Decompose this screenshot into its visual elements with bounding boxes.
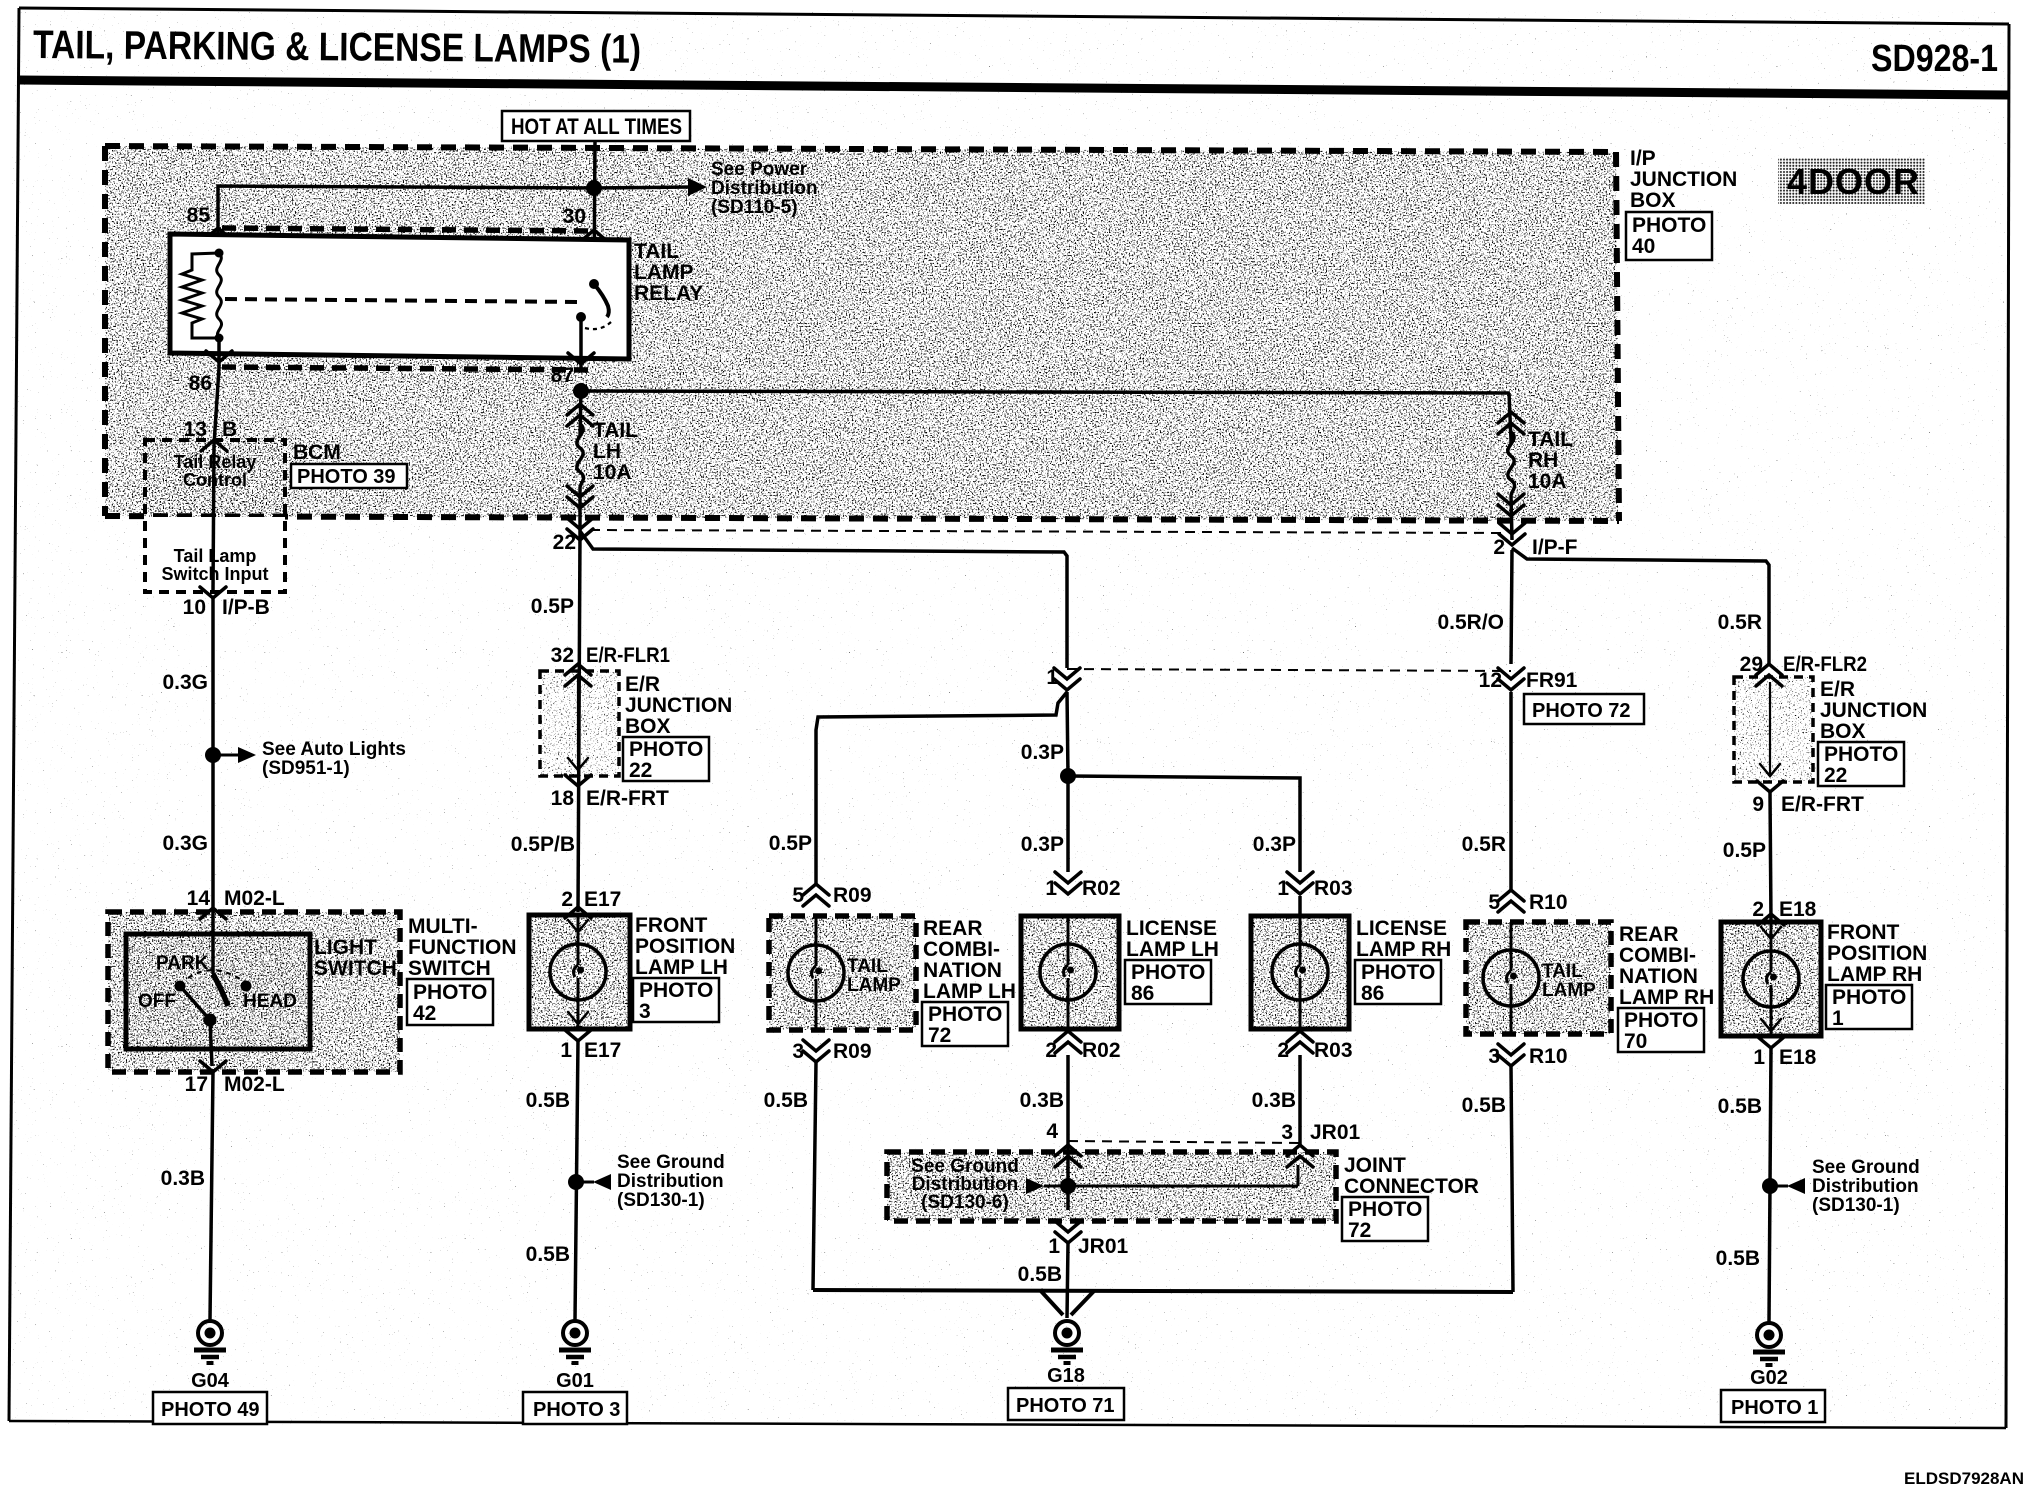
svg-text:R03: R03 — [1314, 1039, 1353, 1062]
lamp bulb license LH — [1040, 944, 1096, 1000]
svg-text:3: 3 — [1488, 1045, 1500, 1068]
svg-text:RH: RH — [1528, 449, 1558, 472]
pin 2 R02 label — [1045, 1039, 1057, 1062]
svg-text:2: 2 — [1752, 898, 1764, 921]
svg-text:R10: R10 — [1529, 1045, 1568, 1068]
svg-text:PHOTO: PHOTO — [413, 981, 487, 1004]
svg-text:FUNCTION: FUNCTION — [408, 936, 517, 959]
svg-text:22: 22 — [1824, 764, 1847, 787]
pin 9 label — [1752, 793, 1764, 816]
pin 32 chevron — [565, 664, 591, 686]
svg-text:E18: E18 — [1779, 898, 1817, 921]
svg-text:30: 30 — [563, 205, 586, 228]
svg-text:10A: 10A — [1528, 470, 1567, 493]
svg-text:LAMP RH: LAMP RH — [1827, 963, 1922, 986]
fuse label TAIL RH 10A — [1528, 428, 1573, 493]
svg-text:NATION: NATION — [923, 959, 1002, 982]
pin 2 E18 label — [1752, 898, 1764, 921]
wire label 0.3G — [162, 671, 208, 694]
wire label 0.3B license LH — [1020, 1089, 1064, 1112]
net name I/P-B — [222, 596, 270, 619]
svg-text:0.5B: 0.5B — [526, 1243, 570, 1266]
wire label 0.3P license RH — [1253, 833, 1296, 856]
wire down to license lamp LH — [1066, 776, 1070, 872]
lamp bulb tail RH — [1483, 950, 1539, 1006]
label See Ground Distribution (SD130-1) LH — [617, 1152, 725, 1211]
pin 10 label — [183, 596, 206, 619]
svg-text:1: 1 — [1277, 877, 1289, 900]
4DOOR badge — [1778, 158, 1925, 204]
pin 5 R09 chevron — [803, 884, 829, 906]
net name E18 lower — [1779, 1046, 1817, 1069]
connector chevron pin 85 — [205, 228, 231, 239]
net name M02-L — [224, 887, 285, 910]
E/R junction box RH — [1734, 677, 1813, 782]
svg-text:PHOTO: PHOTO — [1832, 986, 1906, 1009]
pin 12 FR91 chevron — [1498, 668, 1524, 690]
connector 2 I/P-F chevron — [1499, 523, 1525, 545]
svg-text:72: 72 — [928, 1024, 951, 1047]
lamp bulb license RH — [1272, 944, 1328, 1000]
svg-text:JR01: JR01 — [1078, 1235, 1129, 1258]
svg-text:JUNCTION: JUNCTION — [625, 694, 732, 717]
wire label 0.5B — [526, 1089, 570, 1112]
wire label 0.5P/B — [511, 833, 575, 856]
svg-text:ELDSD7928AN: ELDSD7928AN — [1904, 1469, 2024, 1488]
PHOTO 72 box joint — [1342, 1197, 1428, 1242]
svg-text:13: 13 — [184, 418, 207, 441]
svg-text:E17: E17 — [584, 1039, 621, 1062]
PHOTO 39 box — [291, 464, 407, 488]
pin 2 E18 chevron — [1758, 914, 1784, 925]
svg-text:9: 9 — [1752, 793, 1764, 816]
E/R junction box LH — [540, 671, 619, 776]
net name R09 lower — [833, 1040, 872, 1063]
svg-text:0.5B: 0.5B — [1462, 1094, 1506, 1117]
branch wire I/P-F to front position RH — [1512, 548, 1769, 664]
header thick bar — [19, 80, 2009, 95]
svg-text:14: 14 — [187, 887, 211, 910]
lamp bulb tail LH — [788, 945, 844, 1001]
lamp bulb front position LH — [550, 944, 606, 1000]
svg-text:(SD951-1): (SD951-1) — [262, 758, 350, 779]
svg-text:0.5B: 0.5B — [764, 1089, 808, 1112]
svg-text:0.3B: 0.3B — [1020, 1089, 1064, 1112]
net name E17 — [584, 888, 621, 911]
multi-function switch dashed box — [108, 912, 400, 1072]
svg-text:TAIL: TAIL — [1542, 961, 1583, 982]
net name M02-L lower — [224, 1073, 285, 1096]
svg-text:PHOTO: PHOTO — [639, 979, 713, 1002]
svg-text:TAIL: TAIL — [1528, 428, 1573, 451]
joint connector node — [1060, 1178, 1076, 1194]
node at power feed — [586, 180, 602, 196]
pin 3 R10 label — [1488, 1045, 1500, 1068]
svg-text:72: 72 — [1348, 1219, 1371, 1242]
PHOTO 72 box FR91 — [1524, 694, 1644, 724]
svg-text:(SD130-6): (SD130-6) — [921, 1192, 1009, 1213]
svg-text:10: 10 — [183, 596, 206, 619]
label LIGHT SWITCH — [314, 936, 397, 980]
label REAR COMBINATION LAMP LH — [923, 917, 1016, 1003]
svg-text:POSITION: POSITION — [635, 935, 735, 958]
svg-text:2: 2 — [1277, 1039, 1289, 1062]
junction node license lamps — [1060, 768, 1076, 784]
svg-text:0.5R: 0.5R — [1462, 833, 1506, 856]
svg-text:86: 86 — [189, 372, 212, 395]
wire joint connector to ground G18 — [1067, 1243, 1068, 1318]
wire label 0.3P license LH — [1021, 833, 1064, 856]
svg-text:1: 1 — [1832, 1007, 1844, 1030]
relay switch contact from pin 30 — [576, 279, 611, 368]
label FRONT POSITION LAMP RH — [1827, 921, 1927, 986]
label BCM — [293, 441, 341, 464]
wire switch to ground G04 — [210, 1072, 213, 1320]
pin 9 chevron — [1757, 781, 1783, 792]
svg-text:22: 22 — [553, 531, 576, 554]
connector chevron pin 30 — [581, 230, 607, 241]
pin 3 JR01 chevron — [1287, 1145, 1313, 1167]
svg-text:0.3B: 0.3B — [161, 1167, 205, 1190]
PHOTO 22 box RH — [1818, 742, 1904, 787]
wire feed to pin 85 — [218, 186, 594, 253]
pin 17 label — [185, 1073, 208, 1096]
net name JR01 — [1310, 1121, 1361, 1144]
pin 18 chevron — [565, 775, 591, 786]
pin 4 label — [1046, 1120, 1058, 1143]
svg-text:PHOTO 72: PHOTO 72 — [1532, 700, 1631, 722]
pin 3 JR01 label — [1281, 1121, 1293, 1144]
svg-text:TAIL: TAIL — [847, 956, 888, 977]
svg-text:PHOTO 3: PHOTO 3 — [533, 1399, 620, 1421]
pin 1 E18 label — [1753, 1046, 1765, 1069]
wire connector 2 I/P-F down to FR91 — [1511, 550, 1512, 664]
net name E/R-FLR2 — [1783, 653, 1867, 676]
node see ground distribution LH — [568, 1174, 584, 1190]
svg-text:0.3G: 0.3G — [162, 832, 208, 855]
thin dashed line between connector 22 and connector 2 — [590, 530, 1505, 533]
BCM internal label Tail Lamp Switch Input — [162, 546, 269, 584]
label G04 — [191, 1370, 230, 1392]
svg-text:I/P: I/P — [1630, 147, 1656, 170]
svg-text:1: 1 — [1753, 1046, 1765, 1069]
svg-text:COMBI-: COMBI- — [923, 938, 1000, 961]
pin 3 R09 label — [792, 1040, 804, 1063]
label MULTI-FUNCTION SWITCH — [408, 915, 517, 980]
sheet number SD928-1 — [1871, 38, 1998, 80]
svg-text:LAMP RH: LAMP RH — [1356, 938, 1451, 961]
svg-text:I/P-B: I/P-B — [222, 596, 270, 619]
pin 87 label — [551, 364, 574, 387]
svg-text:JUNCTION: JUNCTION — [1630, 168, 1737, 191]
pin 1 JR01 label — [1048, 1235, 1060, 1258]
wire label 0.5P — [531, 595, 574, 618]
svg-text:85: 85 — [187, 204, 211, 227]
svg-text:R09: R09 — [833, 884, 872, 907]
svg-text:BOX: BOX — [1820, 720, 1866, 743]
net name FR91 — [1526, 669, 1578, 692]
svg-text:LH: LH — [593, 440, 621, 463]
svg-text:0.5P: 0.5P — [769, 832, 812, 855]
svg-text:2: 2 — [561, 888, 573, 911]
label See Ground Distribution (SD130-6) — [911, 1156, 1019, 1213]
label G02 — [1750, 1367, 1788, 1389]
wire E/R box to front position lamp RH — [1770, 792, 1771, 922]
svg-text:4: 4 — [1046, 1120, 1058, 1143]
svg-text:0.5R: 0.5R — [1718, 611, 1762, 634]
relay coil junction dots — [215, 249, 224, 343]
svg-text:BOX: BOX — [1630, 189, 1676, 212]
pin 1 R02 chevron — [1055, 872, 1081, 894]
pin 3 R10 chevron — [1498, 1044, 1524, 1066]
svg-text:G18: G18 — [1047, 1365, 1085, 1387]
dashed line across relay middle — [225, 299, 580, 302]
relay label TAIL LAMP RELAY — [634, 240, 703, 305]
svg-text:42: 42 — [413, 1002, 436, 1025]
joint connector dashed box — [887, 1152, 1336, 1221]
svg-text:(SD130-1): (SD130-1) — [617, 1190, 705, 1211]
svg-text:E/R: E/R — [625, 673, 660, 696]
svg-text:LAMP: LAMP — [847, 975, 901, 996]
svg-text:E17: E17 — [584, 888, 621, 911]
svg-text:0.3P: 0.3P — [1253, 833, 1296, 856]
svg-text:PHOTO: PHOTO — [629, 738, 703, 761]
svg-text:LICENSE: LICENSE — [1356, 917, 1447, 940]
PHOTO 1 box ground — [1721, 1390, 1825, 1422]
fuse label TAIL LH 10A — [593, 419, 638, 484]
svg-text:G04: G04 — [191, 1370, 230, 1392]
svg-text:I/P-F: I/P-F — [1532, 536, 1578, 559]
wire tail LH to ground bus — [813, 1062, 816, 1290]
PHOTO 72 box tail LH — [922, 1002, 1008, 1047]
svg-text:G02: G02 — [1750, 1367, 1788, 1389]
svg-text:LAMP LH: LAMP LH — [923, 980, 1016, 1003]
svg-text:CONNECTOR: CONNECTOR — [1344, 1175, 1479, 1198]
pin 22 label — [553, 531, 576, 554]
net name R03 — [1314, 877, 1353, 900]
svg-text:0.5P: 0.5P — [531, 595, 574, 618]
svg-text:LAMP LH: LAMP LH — [1126, 938, 1219, 961]
wire label 0.5B front RH — [1718, 1095, 1762, 1118]
BCM internal label Tail Relay Control — [174, 452, 257, 490]
PHOTO 42 box — [407, 979, 493, 1025]
svg-text:FR91: FR91 — [1526, 669, 1578, 692]
dashed line below relay between pins 86 and 87 — [222, 367, 595, 370]
svg-text:R03: R03 — [1314, 877, 1353, 900]
svg-text:E/R-FRT: E/R-FRT — [1781, 793, 1864, 816]
svg-text:R02: R02 — [1082, 1039, 1121, 1062]
svg-text:4DOOR: 4DOOR — [1787, 161, 1920, 202]
svg-text:E18: E18 — [1779, 1046, 1817, 1069]
svg-text:R02: R02 — [1082, 877, 1121, 900]
arrow to See Auto Lights — [213, 747, 256, 763]
svg-text:PHOTO 71: PHOTO 71 — [1016, 1395, 1115, 1417]
svg-text:22: 22 — [629, 759, 652, 782]
svg-text:0.3G: 0.3G — [162, 671, 208, 694]
label TAIL LAMP inside box — [847, 956, 901, 996]
wire label 0.3B license RH — [1252, 1089, 1296, 1112]
PHOTO 40 box — [1626, 212, 1712, 260]
svg-text:E/R-FLR1: E/R-FLR1 — [586, 644, 670, 667]
svg-text:PHOTO: PHOTO — [1361, 961, 1435, 984]
label HEAD — [243, 991, 297, 1012]
PHOTO 22 box LH — [623, 737, 709, 782]
ground G02 — [1753, 1323, 1785, 1365]
label LICENSE LAMP LH — [1126, 917, 1219, 961]
net name B — [222, 418, 237, 441]
label E/R JUNCTION BOX RH — [1820, 678, 1927, 743]
svg-text:REAR: REAR — [1619, 923, 1679, 946]
svg-text:18: 18 — [551, 787, 575, 810]
svg-text:32: 32 — [551, 644, 574, 667]
net name JR01 lower — [1078, 1235, 1129, 1258]
arrow See Ground Distribution RH — [1770, 1178, 1805, 1194]
label TAIL LAMP inside box RH — [1542, 961, 1596, 1001]
pin 1 E18 chevron — [1758, 1037, 1784, 1048]
svg-text:LAMP RH: LAMP RH — [1619, 986, 1714, 1009]
wire label 0.5B lower — [526, 1243, 570, 1266]
svg-text:E/R-FLR2: E/R-FLR2 — [1783, 653, 1867, 676]
label LICENSE LAMP RH — [1356, 917, 1451, 961]
svg-text:0.3P: 0.3P — [1021, 741, 1064, 764]
svg-text:0.3P: 0.3P — [1021, 833, 1064, 856]
PHOTO 86 box RH — [1355, 960, 1441, 1005]
switch mechanism — [175, 970, 252, 1026]
connector 1 chevron license feed — [1054, 668, 1080, 690]
pin 86 label — [189, 372, 212, 395]
svg-text:PHOTO 49: PHOTO 49 — [161, 1399, 260, 1421]
PHOTO 86 box LH — [1125, 960, 1211, 1005]
HOT AT ALL TIMES box — [502, 111, 690, 141]
license lamp RH box — [1251, 916, 1349, 1029]
svg-text:R09: R09 — [833, 1040, 872, 1063]
svg-text:0.5B: 0.5B — [1018, 1263, 1062, 1286]
svg-text:POSITION: POSITION — [1827, 942, 1927, 965]
I/P junction box dashed border — [105, 146, 1619, 521]
svg-text:R10: R10 — [1529, 891, 1568, 914]
pin 2 R03 chevron — [1287, 1031, 1313, 1053]
net name R02 lower — [1082, 1039, 1121, 1062]
node see auto lights — [205, 747, 221, 763]
pin 5 R10 label — [1488, 891, 1500, 914]
dashed line above relay between pins 85 and 30 — [222, 228, 592, 231]
wire label 0.5R tail RH — [1462, 833, 1506, 856]
svg-text:See Ground: See Ground — [617, 1152, 725, 1173]
PHOTO 70 box — [1618, 1008, 1704, 1053]
pin 29 E/R-FLR2 chevron — [1756, 664, 1782, 686]
footer code ELDSD7928AN — [1904, 1469, 2024, 1488]
wire label 0.5B lower RH — [1716, 1247, 1760, 1270]
svg-text:0.5B: 0.5B — [1718, 1095, 1762, 1118]
wire license LH to joint connector — [1066, 1055, 1070, 1145]
svg-text:(SD110-5): (SD110-5) — [711, 197, 798, 218]
svg-text:E/R-FRT: E/R-FRT — [586, 787, 669, 810]
pin 12 label — [1479, 669, 1502, 692]
pin 13 label — [184, 418, 207, 441]
PHOTO 1 box — [1826, 985, 1912, 1030]
fuse TAIL LH 10A — [567, 391, 593, 533]
pin 1 R03 chevron — [1287, 872, 1313, 894]
label OFF — [138, 991, 176, 1012]
svg-text:40: 40 — [1632, 235, 1655, 258]
tail lamp relay box — [170, 234, 629, 359]
wire label 0.3P upper — [1021, 741, 1064, 764]
label FRONT POSITION LAMP LH — [635, 914, 735, 979]
svg-text:86: 86 — [1361, 982, 1384, 1005]
svg-text:Switch Input: Switch Input — [162, 564, 269, 584]
svg-text:HOT AT ALL TIMES: HOT AT ALL TIMES — [511, 114, 682, 139]
pin 10 I/P-B chevron — [200, 587, 226, 598]
svg-text:NATION: NATION — [1619, 965, 1698, 988]
arrow See Ground Distribution LH — [576, 1174, 611, 1190]
pin 5 R09 label — [792, 884, 804, 907]
node see ground distribution RH — [1762, 1178, 1778, 1194]
svg-text:JR01: JR01 — [1310, 1121, 1361, 1144]
connector 22 chevron at I/P box exit — [567, 518, 593, 540]
svg-text:1: 1 — [1045, 877, 1057, 900]
label JOINT CONNECTOR — [1344, 1154, 1479, 1198]
license lamp LH box — [1021, 916, 1119, 1029]
net name R02 — [1082, 877, 1121, 900]
PHOTO 3 box ground — [523, 1392, 627, 1424]
svg-text:0.5R/O: 0.5R/O — [1437, 611, 1504, 634]
svg-text:SWITCH: SWITCH — [408, 957, 491, 980]
wire pin 86 down to BCM pin 13 — [214, 368, 219, 445]
svg-text:FRONT: FRONT — [635, 914, 707, 937]
wire label 0.5P tail LH — [769, 832, 812, 855]
pin 2 E17 chevron — [565, 907, 591, 918]
pin 4 chevron — [1055, 1145, 1081, 1167]
svg-text:See Ground: See Ground — [1812, 1157, 1920, 1178]
fuse TAIL RH 10A — [1498, 412, 1524, 540]
svg-text:SWITCH: SWITCH — [314, 957, 397, 980]
svg-text:0.3B: 0.3B — [1252, 1089, 1296, 1112]
ground G04 — [194, 1321, 226, 1363]
svg-text:LAMP: LAMP — [1542, 980, 1596, 1001]
pin 1 label license feed — [1046, 666, 1058, 689]
pin 1 E17 label — [560, 1039, 572, 1062]
pin 1 R02 label — [1045, 877, 1057, 900]
pin 1 E17 chevron — [565, 1030, 591, 1041]
label G01 — [556, 1370, 594, 1392]
wire BCM to light switch — [211, 598, 215, 908]
svg-text:0.5P: 0.5P — [1723, 839, 1766, 862]
pin 14 chevron — [200, 908, 226, 919]
wire inside BCM pin13 to pin10 — [213, 445, 214, 592]
pin 30 label — [563, 205, 586, 228]
svg-text:Distribution: Distribution — [711, 178, 818, 199]
svg-text:TAIL: TAIL — [593, 419, 638, 442]
svg-text:17: 17 — [185, 1073, 208, 1096]
svg-text:1: 1 — [1046, 666, 1058, 689]
ground G01 — [559, 1321, 591, 1363]
svg-text:PHOTO: PHOTO — [1348, 1198, 1422, 1221]
svg-text:E/R: E/R — [1820, 678, 1855, 701]
thin dashed line pin 4 to pin 3 JR01 — [1068, 1141, 1301, 1143]
label REAR COMBINATION LAMP RH — [1619, 923, 1714, 1009]
pin 85 label — [187, 204, 211, 227]
title TAIL, PARKING & LICENSE LAMPS (1) — [33, 23, 641, 72]
label E/R JUNCTION BOX — [625, 673, 732, 738]
branch wire to license lamp RH — [1068, 776, 1300, 872]
BCM dashed box — [145, 440, 285, 592]
pin 2 E17 label — [561, 888, 573, 911]
svg-text:OFF: OFF — [138, 991, 176, 1012]
I/P junction box stippled background — [105, 146, 1619, 521]
svg-text:LAMP: LAMP — [634, 261, 694, 284]
net name E/R-FRT RH — [1781, 793, 1864, 816]
pin 3 R09 chevron — [803, 1040, 829, 1062]
